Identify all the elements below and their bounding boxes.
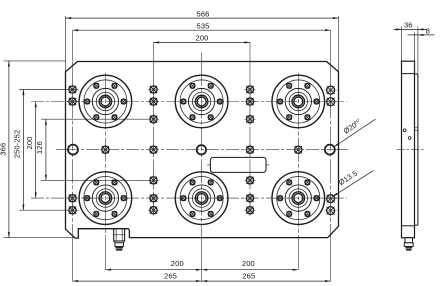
hole D13.5 #2 at (330.6,101.7) <box>324 96 336 108</box>
dimension 366 <box>0 61 10 238</box>
wire 126 upper extension inner <box>66 118 158 120</box>
centerline mid column 2 <box>249 42 251 61</box>
centerline column 3 <box>297 238 299 270</box>
wire 250-252 upper extension inner <box>66 89 79 91</box>
side view small hole b <box>408 137 411 140</box>
threaded hole M11 at (153.5,210.2) <box>148 205 159 216</box>
hose fitting front view <box>114 229 125 251</box>
centerline mid column 2 inner <box>249 62 251 215</box>
hole D20 center <box>197 145 206 154</box>
threaded hole M12 at (250.0,89.5) <box>244 84 255 95</box>
hose fitting side view <box>404 238 413 251</box>
threaded hole M16 at (250.0,180.3) <box>244 175 255 186</box>
centerline bottom flange row inner <box>66 197 338 199</box>
threaded hole M1 at (72.5,89.5) <box>67 84 78 95</box>
flange boss B1 bolt holes <box>85 180 126 217</box>
hole D13.5 #4 at (330.6,210.6) <box>324 204 336 216</box>
svg-text:200: 200 <box>242 259 255 268</box>
wire 126 lower extension line <box>41 179 158 181</box>
threaded hole M13 at (250.0,101.5) <box>244 96 255 107</box>
hole D20 right <box>325 145 335 155</box>
flange boss B2 rings <box>175 172 228 225</box>
centerline mid column 1 <box>153 42 155 61</box>
centerline column 2 <box>201 53 203 281</box>
threaded hole M2 at (72.5,101.5) <box>67 96 78 107</box>
threaded hole M3 at (72.5,198.2) <box>67 193 78 204</box>
centerline right hole column <box>330 30 332 281</box>
centerline column 1 inner <box>104 73 106 237</box>
threaded hole M17 at (250.0,198.2) <box>244 193 255 204</box>
dimension 200 bottom left <box>105 259 201 271</box>
svg-text:265: 265 <box>242 271 255 280</box>
centerline right hole column inner <box>330 62 332 235</box>
flange boss A3 rings <box>272 75 325 128</box>
side view 8mm layer <box>415 74 418 225</box>
threaded hole M20 at (298.3,149.7) <box>293 144 304 155</box>
side view centerline <box>397 149 424 151</box>
dimension 566 <box>66 10 339 20</box>
dimension 200 top <box>154 34 251 44</box>
svg-text:126: 126 <box>35 141 44 154</box>
wire 250-252 lower extension line <box>19 209 79 211</box>
flange boss A3 bolt holes <box>278 83 319 120</box>
threaded hole M4 at (72.5,210.2) <box>67 205 78 216</box>
nameplate pocket rounded rect <box>207 157 269 172</box>
wire 126 lower extension inner <box>66 179 158 181</box>
wire 250-252 lower extension inner <box>66 209 79 211</box>
label D13.5 with leader <box>332 169 373 197</box>
flange boss B2 bolt holes <box>181 180 222 217</box>
dimension 566 extension right <box>338 16 340 72</box>
threaded hole M7 at (153.5,119.2) <box>148 114 159 125</box>
centerline column 2 inner <box>201 62 203 237</box>
threaded hole M9 at (153.5,180.3) <box>148 175 159 186</box>
side view small hole a <box>403 129 406 132</box>
centerline bottom flange row <box>31 197 347 199</box>
threaded hole M8 at (153.5,149.7) <box>148 144 159 155</box>
dimension 36 extension left <box>401 27 403 61</box>
threaded hole M18 at (250.0,210.2) <box>244 205 255 216</box>
svg-text:250-252: 250-252 <box>13 130 22 159</box>
wire 250-252 upper extension line <box>19 89 79 91</box>
svg-text:8: 8 <box>426 27 430 36</box>
side view main body <box>402 61 415 238</box>
dimension 566 extension left <box>65 16 67 72</box>
threaded hole M5 at (153.5,89.5) <box>148 84 159 95</box>
flange boss A1 bolt holes <box>85 83 126 120</box>
threaded hole M15 at (250.0,149.7) <box>244 144 255 155</box>
dimension 200 bottom right <box>202 259 299 271</box>
flange boss A2 rings <box>175 75 228 128</box>
flange boss B3 bolt holes <box>278 180 319 217</box>
dimension 126 <box>35 119 47 180</box>
svg-text:265: 265 <box>164 271 177 280</box>
svg-text:200: 200 <box>171 259 184 268</box>
flange boss A2 bolt holes <box>181 83 222 120</box>
svg-text:535: 535 <box>197 21 210 30</box>
centerline column 3 inner <box>297 73 299 237</box>
hole D20 left <box>68 145 78 155</box>
dimension 8 extension <box>414 33 416 74</box>
side view step line bottom <box>402 225 415 227</box>
dimension 265 bottom right <box>202 271 331 282</box>
flange boss A1 rings <box>79 75 132 128</box>
dimension 36 extension right <box>417 27 419 74</box>
svg-text:366: 366 <box>0 143 7 156</box>
wire 126 upper extension line <box>41 118 158 120</box>
centerline horizontal middle inner <box>66 149 338 151</box>
flange boss B3 rings <box>272 172 325 225</box>
svg-text:200: 200 <box>196 34 209 43</box>
wire 366 top extension line <box>4 60 66 62</box>
centerline top flange row <box>31 101 347 103</box>
dimension 535 <box>73 21 331 31</box>
threaded hole M10 at (153.5,198.2) <box>148 193 159 204</box>
side view step line top <box>402 73 415 75</box>
front view plate outline <box>66 62 339 239</box>
centerline horizontal middle <box>56 149 348 151</box>
centerline top flange row inner <box>66 101 338 103</box>
threaded hole M14 at (250.0,119.2) <box>244 114 255 125</box>
centerline left hole column <box>72 30 74 281</box>
label D20 H7 with leader <box>334 117 376 147</box>
threaded hole M19 at (105.4,149.7) <box>100 144 111 155</box>
dimension 250-252 <box>13 90 25 211</box>
centerline column 1 <box>104 238 106 270</box>
flange boss B1 rings <box>79 172 132 225</box>
hole D13.5 #3 at (330.6,198.6) <box>324 192 336 204</box>
hole D13.5 #1 at (330.6,90.1) <box>324 84 336 96</box>
svg-text:200: 200 <box>25 137 34 150</box>
dimension 8 <box>408 27 435 36</box>
dimension 36 <box>394 20 427 30</box>
threaded hole M6 at (153.5,101.5) <box>148 96 159 107</box>
dimension 265 bottom left <box>73 271 202 282</box>
svg-text:36: 36 <box>404 20 413 29</box>
centerline left hole column inner <box>72 62 74 238</box>
centerline mid column 1 inner <box>153 62 155 215</box>
side view slot lines <box>415 128 418 131</box>
dimension 200 left <box>25 102 37 199</box>
svg-text:566: 566 <box>197 10 210 19</box>
wire 366 bottom extension line <box>4 237 76 239</box>
